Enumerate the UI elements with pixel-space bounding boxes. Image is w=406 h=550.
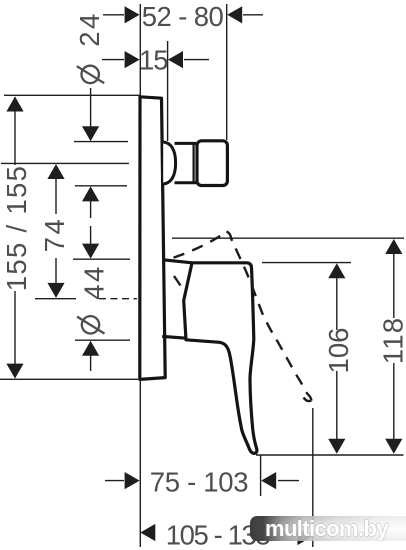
dashed raised handle outer edge down to lever tip (227, 232, 312, 401)
handle collar top edge (163, 260, 192, 263)
arrow 15 right (168, 51, 183, 68)
arrow 106 bottom (328, 439, 345, 454)
wire: plate bottom extension y=379.3 (0, 378, 138, 380)
watermark box (250, 516, 406, 541)
spout connection box (197, 141, 227, 186)
svg-text:24: 24 (74, 11, 105, 47)
wire: spout bottom tick y=185.8 (75, 185, 127, 187)
svg-text:74: 74 (39, 217, 70, 253)
wire: spout centreline y=163.4 (1, 162, 129, 164)
wire: extension line x=140 bottom (below plate to bottom dims) (139, 380, 141, 547)
svg-text:118: 118 (377, 317, 406, 364)
wire: d44 bottom tick y=340.2 (75, 339, 130, 341)
spout neck bottom line (175, 181, 197, 184)
wire: 75-103 left arrow tail (105, 480, 124, 482)
arrow 106 top (328, 263, 345, 278)
wire: 52-80 right arrow tail (243, 14, 263, 16)
arrow 74 top (47, 164, 64, 179)
arrow 118 bottom (385, 439, 402, 454)
handle body and lever (solid outline) (184, 263, 257, 454)
wire: 118 top extension y=238.2 (172, 237, 404, 239)
arrow 155 top (6, 97, 23, 112)
arrow 105-133 right (297, 528, 312, 545)
wire: bottom reference line y=455 (256, 454, 404, 456)
wire: handle centreline tick y=298.7 (35, 298, 76, 300)
arrow 75-103 right (261, 472, 276, 489)
arrow 15 left (125, 51, 140, 68)
wire: 74 dim upper stem (55, 179, 57, 214)
label D44 diameter symbol (77, 316, 104, 334)
dashed raised handle tip return (304, 398, 312, 402)
arrow d44 bottom (82, 341, 99, 356)
wire: plate top extension y=95.3 (4, 94, 140, 96)
spout flange bulge (163, 142, 175, 184)
wire: 75-103 right extension x=260.6 (260, 455, 262, 496)
wire: d44 top tick y=259.2 (73, 258, 130, 260)
wire: extension line x=140 top (wall/plate face) (139, 4, 141, 96)
wire: 74 dim lower stem (55, 258, 57, 284)
wire: 105-133 right extension x=312.8 (312, 408, 314, 547)
svg-text:106: 106 (323, 328, 354, 374)
plate (escutcheon side view) (140, 97, 165, 380)
wire: 106 top extension y=262.6 (262, 262, 351, 264)
svg-text:155 / 155: 155 / 155 (1, 165, 32, 291)
arrow 155 bottom (6, 364, 23, 379)
arrow d24 bottom (82, 186, 99, 201)
arrow 52-80 right (227, 6, 242, 23)
wire: 155/155 dimension line upper segment (14, 97, 16, 165)
arrow 118 top (385, 239, 402, 254)
wire: 118 dimension line segments (393, 253, 395, 318)
wire: handle centreline dashed continuation (99, 298, 137, 300)
wire: spout top tick y=141.6 (74, 141, 128, 143)
wire: d44 bottom arrow stem (90, 355, 92, 371)
wire: d24 top arrow stem (90, 88, 92, 128)
spout neck top line (175, 142, 197, 145)
arrow d44 top (82, 244, 99, 259)
wire: 75-103 right arrow tail (278, 480, 299, 482)
arrow 75-103 left (125, 472, 140, 489)
wire: 15 right arrow tail (184, 59, 209, 61)
arrow 74 bottom (47, 283, 64, 298)
wire: 106 dimension line segments (336, 277, 338, 330)
dashed raised handle lower edge near plate (174, 276, 182, 287)
arrow 105-133 left (140, 524, 155, 541)
svg-text:15: 15 (139, 44, 168, 75)
svg-text:52 - 80: 52 - 80 (142, 1, 224, 32)
watermark text multicom.by (265, 516, 406, 542)
handle collar bottom edge (162, 336, 186, 338)
arrow 52-80 left (125, 6, 140, 23)
arrow d24 top (82, 126, 99, 141)
dashed raised handle top edge to apex (174, 232, 227, 258)
wire: 15 left arrow tail (102, 59, 124, 61)
label D24 diameter symbol (77, 66, 104, 83)
wire: d24 bottom / d44 top shared stem (90, 201, 92, 218)
wire: extension line x=167.6 (15 dim right) (167, 41, 169, 141)
wire: extension line x=226.7 (right end of spout box) (226, 4, 228, 140)
spout joint line (193, 143, 195, 183)
wire: 52-80 left arrow tail (103, 14, 124, 16)
svg-text:44: 44 (79, 264, 110, 300)
wire: 155/155 dimension line lower segment (14, 291, 16, 377)
svg-text:75 - 103: 75 - 103 (150, 467, 249, 498)
